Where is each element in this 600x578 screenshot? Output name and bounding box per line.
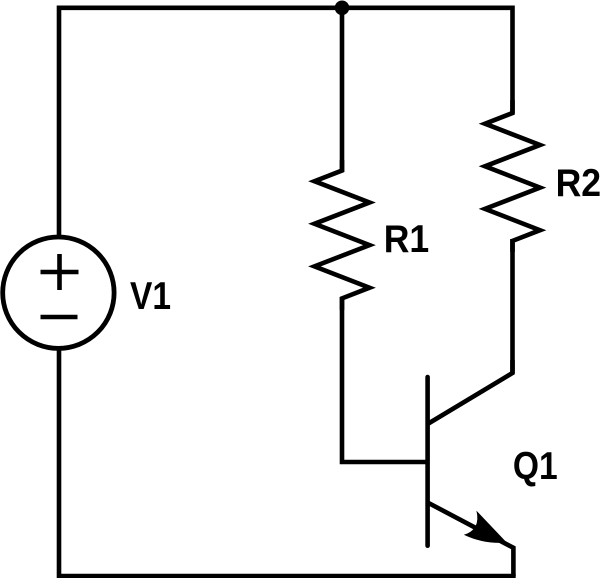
wire: R1 bottom down and right to Q1 base (342, 297, 428, 462)
wire: V1 positive terminal up, across top, down to R2 top (59, 8, 513, 237)
svg-text:R1: R1 (384, 218, 430, 261)
svg-text:R2: R2 (556, 162, 600, 205)
svg-text:V1: V1 (130, 275, 171, 318)
node: top junction dot (335, 1, 350, 16)
wire: top node to R1 top (340, 6, 345, 173)
wire: R2 bottom down to Q1 collector (510, 239, 515, 373)
svg-text:Q1: Q1 (513, 445, 558, 488)
transistor Q1 emitter arrowhead (464, 511, 507, 543)
voltage source V1 (3, 237, 114, 348)
wire: bottom wire from Q1 emitter to V1 negative terminal (59, 348, 513, 576)
transistor Q1 (428, 360, 514, 576)
resistor R1 (315, 160, 370, 310)
resistor R2 (485, 100, 540, 252)
